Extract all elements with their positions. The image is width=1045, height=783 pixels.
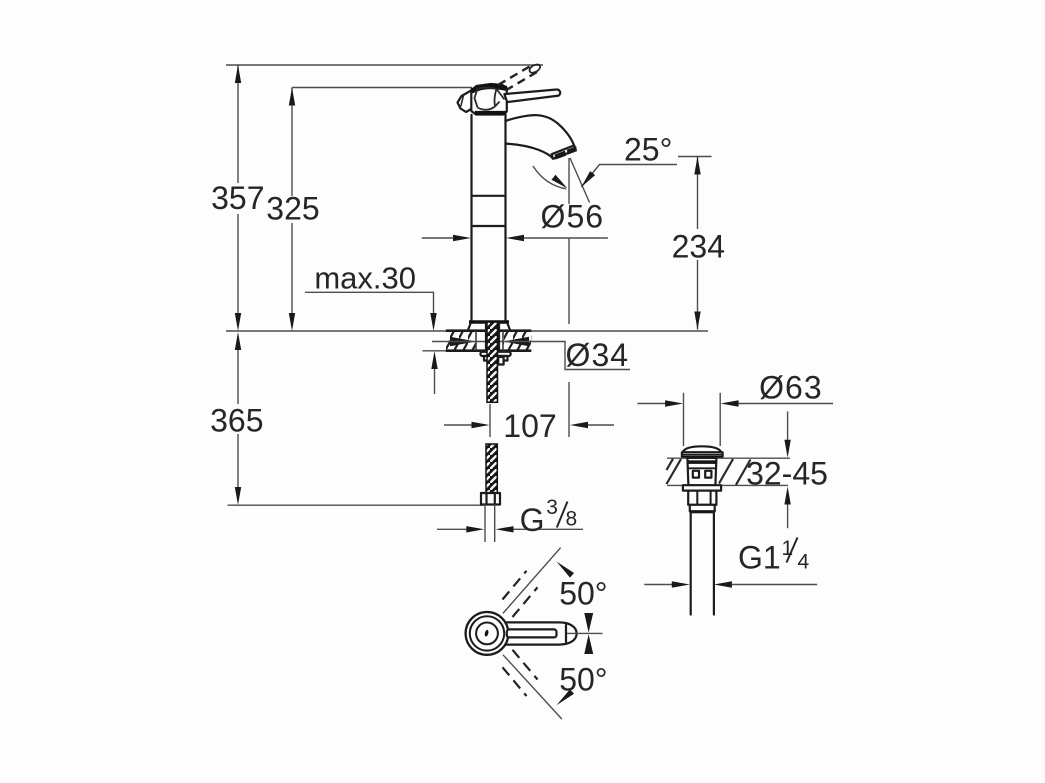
svg-text:8: 8 (566, 508, 578, 531)
lever dashed (raised position) (498, 63, 542, 91)
dimension 325 line (289, 88, 295, 332)
dimension G1 1/4 line (644, 581, 817, 587)
svg-text:Ø56: Ø56 (541, 199, 604, 235)
dimension 234 line (694, 157, 700, 330)
dimension Ø34 arrows at mounting hole (450, 337, 529, 347)
label G 3/8 (520, 496, 578, 538)
25 degree leader with arrow (581, 157, 711, 188)
mounting nut (484, 356, 508, 361)
countertop reference line (226, 330, 708, 332)
countertop cross-section (hatched) (446, 331, 532, 351)
top view: 50 deg boundary line upper (503, 548, 561, 614)
drain extension lines (684, 393, 721, 446)
svg-text:357: 357 (211, 180, 264, 216)
top view: horizontal centerline (567, 632, 603, 634)
top extension line (357 ref, faucet max height) (226, 64, 543, 66)
dimension 357 line (235, 65, 241, 331)
handle boss (471, 84, 507, 115)
spout (506, 115, 578, 159)
dimension Ø56 line (422, 235, 608, 241)
svg-text:max.30: max.30 (314, 261, 416, 296)
hose-end reference line (365 bottom) (228, 504, 483, 506)
dimension G3/8 line (437, 526, 583, 532)
svg-text:50°: 50° (559, 576, 607, 612)
label G1 1/4 (738, 537, 810, 576)
svg-text:Ø34: Ø34 (566, 337, 629, 373)
svg-text:365: 365 (210, 403, 263, 439)
spout 25 degree slant line (570, 158, 590, 203)
second extension line (325 ref) (292, 87, 472, 89)
Ø34 leader line (432, 342, 630, 370)
drain collar (690, 505, 715, 514)
basin cross-section lines (hatched) (667, 458, 791, 485)
drain body in basin (687, 458, 716, 486)
svg-text:4: 4 (798, 551, 810, 574)
svg-text:1: 1 (782, 537, 794, 560)
handle boss left wing (458, 90, 473, 112)
svg-text:G: G (520, 502, 545, 538)
dimension 107 line (444, 404, 614, 437)
lever (horizontal position) (504, 89, 560, 102)
top view: dashed lever rotated up (503, 571, 538, 617)
svg-text:Ø63: Ø63 (759, 369, 822, 405)
top view: pivot circles (466, 612, 509, 655)
drain cap dome (682, 446, 723, 457)
top view: dashed lever rotated down (503, 650, 538, 696)
mounting washer under counter (480, 352, 510, 356)
svg-text:107: 107 (503, 408, 556, 444)
dimension 365 line (235, 332, 241, 505)
drain tailpipe (691, 513, 714, 614)
supply tube lines (486, 322, 499, 352)
svg-text:G1: G1 (738, 540, 781, 576)
dimension 32-45 arrows (784, 412, 790, 529)
svg-text:25°: 25° (624, 132, 672, 168)
clamp tab (498, 357, 503, 365)
svg-text:3: 3 (546, 496, 558, 519)
threaded stud (487, 322, 498, 402)
drain locknut (688, 491, 716, 505)
spout outlet centerline (vertical) (568, 158, 570, 437)
G3/8 hex fitting (481, 493, 500, 505)
svg-text:234: 234 (672, 229, 725, 265)
svg-text:325: 325 (266, 191, 319, 227)
arc arrow at spout outlet (533, 166, 568, 189)
G3/8 stub lines (485, 505, 495, 543)
flexible hose (486, 444, 497, 493)
faucet body column (468, 115, 510, 330)
svg-text:32-45: 32-45 (746, 456, 828, 492)
top view: lever slot (507, 625, 566, 642)
max.30 leader line (305, 292, 446, 394)
svg-text:50°: 50° (559, 661, 607, 697)
dimension Ø63 line (638, 400, 834, 406)
top view: lever arm (500, 622, 577, 644)
top view: 50 deg boundary line lower (503, 655, 562, 719)
drain washer (683, 485, 721, 490)
top view: arc arrowheads (557, 562, 594, 706)
